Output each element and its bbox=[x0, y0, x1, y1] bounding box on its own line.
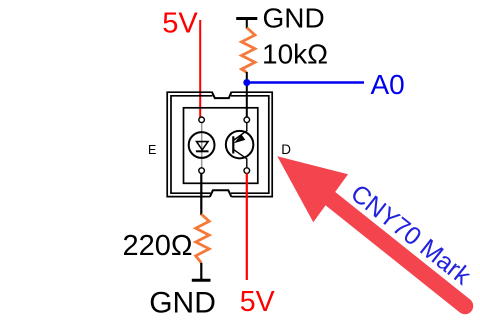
wire black resistor to ground bbox=[200, 263, 202, 279]
svg-text:A0: A0 bbox=[371, 69, 405, 100]
package U1 CNY70 outer outline bbox=[167, 92, 272, 197]
package U1 inner rectangle bbox=[184, 108, 258, 184]
wire red emitter to 5V bbox=[246, 173, 248, 280]
svg-text:E: E bbox=[148, 143, 156, 157]
pin 1 terminal bbox=[199, 117, 205, 123]
phototransistor Q1 bbox=[226, 123, 254, 169]
wire red 5V to LED anode bbox=[199, 20, 201, 117]
svg-text:10kΩ: 10kΩ bbox=[262, 39, 328, 70]
svg-text:220Ω: 220Ω bbox=[123, 230, 193, 262]
resistor R2 220Ω bbox=[196, 214, 210, 263]
LED emitter D1 bbox=[189, 132, 215, 158]
ground top bbox=[236, 19, 257, 29]
pin 4 terminal bbox=[244, 168, 250, 174]
wire blue A0 bbox=[247, 81, 364, 84]
svg-text:D: D bbox=[281, 142, 291, 157]
pin 3 terminal bbox=[244, 117, 250, 123]
svg-text:GND: GND bbox=[263, 3, 325, 34]
annotation arrow CNY70 mark pointer bbox=[277, 156, 465, 306]
svg-text:GND: GND bbox=[149, 286, 216, 319]
pin 2 terminal bbox=[199, 168, 205, 174]
wire black LED cathode down bbox=[200, 173, 202, 215]
LED internal gray wire bbox=[201, 123, 203, 169]
ground bottom bbox=[192, 279, 211, 282]
svg-text:5V: 5V bbox=[240, 286, 275, 318]
svg-text:5V: 5V bbox=[162, 7, 198, 39]
wire black resistor to collector pin bbox=[246, 72, 248, 117]
node junction A0 bbox=[243, 79, 250, 86]
resistor R1 10kΩ bbox=[242, 28, 256, 73]
